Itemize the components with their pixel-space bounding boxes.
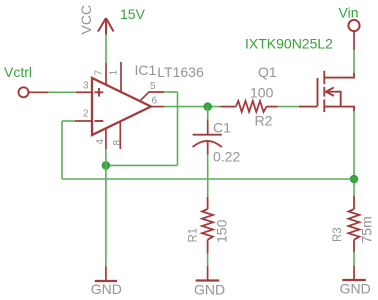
pin 2 lead <box>75 120 92 122</box>
svg-text:0.22: 0.22 <box>213 148 240 164</box>
wire vertical pin5 net down <box>177 92 179 165</box>
C1 top plate <box>193 134 222 136</box>
pin 8 lead <box>119 121 121 149</box>
svg-text:IC1: IC1 <box>135 62 157 78</box>
C1 bottom plate arc <box>193 141 222 147</box>
wire Vctrl net (green) <box>49 91 76 93</box>
pin circle Vin <box>348 20 359 31</box>
ground symbol middle <box>194 266 225 298</box>
wire output pin6 to R2 <box>164 106 220 108</box>
pin 5 lead <box>140 92 164 101</box>
body arrow <box>326 87 334 96</box>
svg-text:4: 4 <box>95 139 106 145</box>
wire Vctrl pin stub (red) <box>29 91 49 93</box>
power symbol VCC arrow <box>98 18 114 35</box>
svg-text:R1: R1 <box>188 228 200 243</box>
wire dot to C1 <box>207 107 209 120</box>
svg-text:3: 3 <box>83 81 89 92</box>
svg-text:5: 5 <box>150 81 156 92</box>
ground symbol right <box>340 266 371 297</box>
ground symbol left <box>91 266 122 297</box>
svg-text:R2: R2 <box>255 112 273 128</box>
svg-text:150: 150 <box>214 219 230 243</box>
svg-text:2: 2 <box>83 108 89 119</box>
wire C1 to R1 <box>207 155 209 197</box>
pin circle Vctrl <box>19 87 29 97</box>
wire R3 to gnd <box>353 252 355 266</box>
wire bottom horizontal feedback <box>62 178 354 180</box>
resistor R3 <box>348 196 359 252</box>
svg-text:GND: GND <box>91 281 122 297</box>
pin 6 lead <box>151 106 164 108</box>
drain stub <box>324 73 354 78</box>
svg-text:75m: 75m <box>359 216 375 243</box>
wire pin 2 vertical <box>61 121 63 179</box>
svg-text:1: 1 <box>109 70 120 76</box>
pin 4 lead <box>105 128 107 150</box>
junction dot pin4 net <box>102 161 111 170</box>
resistor R1 <box>202 197 213 253</box>
svg-text:7: 7 <box>94 70 105 76</box>
svg-text:R3: R3 <box>332 227 344 242</box>
wire source down to node <box>353 111 355 196</box>
svg-text:VCC: VCC <box>78 5 94 35</box>
junction dot source node <box>350 175 359 184</box>
svg-text:Vctrl: Vctrl <box>4 64 32 80</box>
svg-text:8: 8 <box>112 140 123 146</box>
resistor R2 <box>221 101 278 112</box>
svg-text:C1: C1 <box>213 120 231 136</box>
wire pin 5 to feedback vertical <box>164 91 177 93</box>
svg-text:IXTK90N25L2: IXTK90N25L2 <box>245 36 333 52</box>
pin 1 lead <box>120 62 122 92</box>
svg-text:GND: GND <box>194 282 225 298</box>
wire pin4 down <box>105 149 107 266</box>
svg-text:LT1636: LT1636 <box>157 64 204 80</box>
wire pin4 net horizontal <box>106 164 178 166</box>
C1 bottom pin <box>207 141 209 155</box>
source stub <box>324 107 354 111</box>
svg-text:GND: GND <box>340 281 371 297</box>
wire R2 to gate <box>278 106 299 108</box>
wire Vin stub red <box>353 31 355 50</box>
svg-text:Q1: Q1 <box>258 64 277 80</box>
svg-text:6: 6 <box>152 95 158 106</box>
junction dot C1 top <box>203 102 212 111</box>
channel segment bottom <box>323 100 325 113</box>
pin 7 lead <box>105 63 107 85</box>
wire Vin net green <box>353 50 355 75</box>
capacitor C1 <box>193 120 222 155</box>
svg-text:Vin: Vin <box>339 5 359 21</box>
gate bar <box>317 78 319 106</box>
wire pin 2 stub green <box>62 120 75 122</box>
transistor Q1 MOSFET <box>299 71 354 112</box>
wire R1 to gnd <box>207 253 209 266</box>
op-amp minus sign <box>95 120 104 122</box>
pin 3 lead <box>76 91 92 93</box>
svg-text:15V: 15V <box>120 6 146 22</box>
channel segment middle <box>323 87 325 97</box>
wire VCC to pin 7 <box>105 35 107 64</box>
C1 top pin <box>207 120 209 135</box>
op-amp U1 triangle <box>92 78 151 135</box>
gate lead <box>299 106 318 108</box>
channel segment top <box>323 71 325 84</box>
op-amp plus sign <box>95 88 104 97</box>
svg-text:100: 100 <box>250 84 274 100</box>
